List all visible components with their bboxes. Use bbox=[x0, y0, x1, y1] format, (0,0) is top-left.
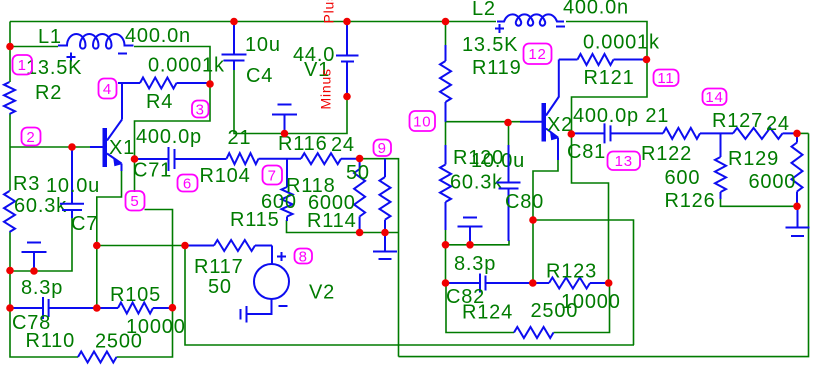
svg-text:2500: 2500 bbox=[531, 300, 579, 322]
inductor L2 coil 400.0n bbox=[497, 14, 564, 25]
junction dot C82-R123 junction bbox=[529, 279, 537, 287]
V2 plus polarity mark bbox=[277, 252, 286, 261]
inductor L2 bbox=[0, 0, 1, 1]
ground below R114 bbox=[373, 233, 397, 260]
label R119 value 13.5K bbox=[462, 34, 518, 56]
resistor R121 0.0001k bbox=[559, 54, 646, 65]
svg-text:R123: R123 bbox=[546, 261, 597, 283]
label X1 name bbox=[109, 137, 135, 159]
junction dot R4 right node3 column bbox=[206, 80, 214, 88]
svg-text:C81: C81 bbox=[567, 141, 606, 163]
wire R4 left lead to X1 collector bbox=[121, 83, 123, 120]
label R127 value 24 bbox=[766, 113, 790, 135]
svg-text:R126: R126 bbox=[665, 190, 716, 212]
wire C78-R105 junction to R117 junction bbox=[97, 245, 185, 247]
label C81 value 400.0p 21 bbox=[573, 105, 669, 127]
inductor L1 coil 400.0n bbox=[58, 34, 134, 49]
svg-text:Minus: Minus bbox=[318, 68, 334, 109]
junction dot output tap on C80 column bbox=[529, 216, 537, 224]
label C71 name bbox=[133, 160, 172, 182]
label R120 value 10.0u shared bbox=[471, 150, 525, 172]
svg-text:50: 50 bbox=[208, 276, 232, 298]
inductor L1 bbox=[0, 0, 1, 1]
label R115 name bbox=[230, 209, 280, 231]
resistor R124 2500 in box bottom bbox=[514, 327, 554, 338]
svg-text:2500: 2500 bbox=[95, 331, 143, 353]
label R122 name bbox=[641, 143, 692, 165]
node 13 badge bbox=[608, 152, 641, 171]
capacitor C82 8.3p bbox=[445, 274, 533, 293]
junction dot R119 top bbox=[442, 18, 450, 26]
label R123 name bbox=[546, 261, 597, 283]
label C7 name bbox=[71, 213, 98, 235]
capacitor C4 10u bbox=[222, 22, 247, 71]
wire R120 bottom row to C80 bottom bbox=[446, 240, 510, 245]
junction dot X1 base C7 tap bbox=[68, 143, 76, 151]
label R115 value 600 bbox=[261, 191, 297, 213]
label R127 name bbox=[712, 110, 763, 132]
label R4 name bbox=[146, 91, 173, 113]
label R104 value 21 bbox=[228, 127, 252, 149]
wire left border from rail to R2 bbox=[9, 22, 11, 83]
svg-text:R105: R105 bbox=[110, 284, 161, 306]
label R129 name bbox=[728, 148, 779, 170]
svg-text:13.5K: 13.5K bbox=[462, 34, 518, 56]
resistor R114 6000 bbox=[380, 159, 391, 233]
wire top supply rail Plus right section bbox=[566, 22, 647, 60]
junction dot ground cell stem right bbox=[466, 241, 474, 249]
label C4 value 10u bbox=[245, 34, 281, 56]
resistor R119 13.5K bbox=[440, 45, 451, 122]
svg-text:R3: R3 bbox=[13, 173, 40, 195]
label R114 value 6000 bbox=[308, 192, 356, 214]
junction dot R120 bottom row bbox=[442, 241, 450, 249]
resistor R105 10000 bbox=[97, 303, 173, 314]
capacitor C7 10.0u bbox=[60, 147, 84, 218]
svg-text:60.3k: 60.3k bbox=[14, 195, 67, 217]
wire left border R2 to base-wire and R3 bbox=[9, 114, 11, 191]
svg-text:L2: L2 bbox=[472, 0, 496, 20]
svg-text:6: 6 bbox=[183, 175, 192, 192]
junction dot C4 top bbox=[230, 18, 238, 26]
capacitor C71 400.0p bbox=[135, 147, 227, 171]
label C82 value 8.3p bbox=[454, 253, 496, 275]
svg-text:4: 4 bbox=[103, 81, 112, 98]
svg-text:R124: R124 bbox=[462, 302, 513, 324]
label R119 name bbox=[472, 57, 522, 79]
label R126 name bbox=[665, 190, 716, 212]
svg-text:C4: C4 bbox=[246, 65, 273, 87]
node 7 badge bbox=[263, 166, 283, 185]
label R114 name bbox=[307, 210, 357, 232]
resistor R129 6000 bbox=[792, 133, 803, 206]
label R120 value 60.3k bbox=[450, 172, 503, 194]
svg-text:5: 5 bbox=[130, 193, 139, 210]
label R124 name bbox=[462, 302, 513, 324]
svg-text:9: 9 bbox=[378, 140, 387, 157]
ground below C4 row bbox=[272, 105, 297, 134]
ground below R129 column bbox=[786, 206, 810, 236]
wire bottom border right section bbox=[399, 133, 809, 356]
label L2 name bbox=[472, 0, 496, 20]
junction dot node1 rail-L1 bbox=[6, 43, 14, 51]
svg-text:10.0u: 10.0u bbox=[46, 175, 100, 197]
label C7 value 10.0u bbox=[46, 175, 100, 197]
label R110 name bbox=[26, 330, 76, 352]
svg-text:10: 10 bbox=[413, 113, 431, 130]
label R118 name bbox=[286, 175, 336, 197]
label R3 name bbox=[13, 173, 40, 195]
label R110 value 2500 bbox=[95, 331, 143, 353]
svg-text:8.3p: 8.3p bbox=[21, 277, 63, 299]
node 9 badge bbox=[374, 140, 392, 158]
svg-text:R119: R119 bbox=[472, 57, 522, 79]
wire y159 run right end corner down bbox=[355, 159, 399, 357]
svg-text:0.0001k: 0.0001k bbox=[148, 55, 225, 77]
junction dot C78-R105 junction bbox=[93, 304, 101, 312]
label C80 name bbox=[505, 191, 544, 213]
label R117 name bbox=[194, 256, 244, 278]
svg-text:400.0n: 400.0n bbox=[563, 0, 629, 19]
junction dot C82 left bbox=[442, 279, 450, 287]
wire C7 bottom to left border bbox=[10, 216, 72, 271]
svg-text:14: 14 bbox=[705, 89, 723, 106]
label R105 name bbox=[110, 284, 161, 306]
svg-text:C7: C7 bbox=[71, 213, 98, 235]
svg-text:60.3k: 60.3k bbox=[450, 172, 503, 194]
resistor R122 21 bbox=[663, 128, 733, 139]
svg-text:3: 3 bbox=[196, 101, 205, 118]
node 11 badge bbox=[654, 70, 679, 88]
wire node1 to L1 bbox=[10, 46, 58, 48]
junction dot R105 right bbox=[169, 304, 177, 312]
wire left border below R3 to bottom corner bbox=[10, 232, 78, 357]
voltage source V2 bbox=[247, 246, 290, 315]
resistor R110 2500 in bottom border bbox=[78, 352, 117, 363]
label R105 value 10000 bbox=[126, 316, 186, 338]
label C71 value 400.0p bbox=[136, 126, 202, 148]
svg-text:8.3p: 8.3p bbox=[454, 253, 496, 275]
wire C82-R123 row box left side down bbox=[446, 283, 514, 333]
L2 plus polarity mark bbox=[495, 24, 504, 33]
junction dot R117 wire right bbox=[181, 242, 189, 250]
wire X2 emitter elbow to C80 column bbox=[533, 160, 558, 283]
label C81 name bbox=[567, 141, 606, 163]
svg-text:R129: R129 bbox=[728, 148, 779, 170]
wire top supply rail Plus left section bbox=[10, 21, 496, 23]
node 6 badge bbox=[178, 175, 198, 193]
junction dot R121 right node11 bbox=[643, 56, 651, 64]
resistor R3 60.3k in left border bbox=[4, 191, 15, 232]
junction dot X2 base C80 tap bbox=[504, 119, 512, 127]
junction dot C7 wire left border bbox=[6, 267, 14, 275]
wire node5 right to R105 right column bbox=[145, 210, 173, 308]
svg-text:C78: C78 bbox=[12, 312, 51, 334]
junction dot X1 emitter node bbox=[131, 155, 139, 163]
label R126 value 600 bbox=[665, 167, 701, 189]
svg-text:C71: C71 bbox=[133, 160, 172, 182]
wire X2 base run bbox=[446, 122, 520, 146]
svg-text:7: 7 bbox=[268, 167, 277, 184]
label V1 name bbox=[304, 59, 330, 81]
svg-text:6000: 6000 bbox=[749, 171, 797, 193]
junction dot R114 bottom ground bbox=[381, 229, 389, 237]
wire X1 base from node2 border bbox=[10, 146, 90, 148]
label X2 name bbox=[547, 114, 573, 136]
svg-text:24: 24 bbox=[331, 134, 355, 156]
svg-text:Plus: Plus bbox=[321, 0, 337, 24]
wire node13 column C-box bbox=[572, 60, 648, 284]
junction dot R129 bottom ground bbox=[793, 203, 801, 211]
label R4 value 0.0001k bbox=[148, 55, 225, 77]
svg-text:R4: R4 bbox=[146, 91, 173, 113]
svg-text:C80: C80 bbox=[505, 191, 544, 213]
resistor R123 10000 bbox=[533, 278, 609, 289]
svg-text:400.0p: 400.0p bbox=[136, 126, 202, 148]
wire bottom border right of R110 and up to R105 right node bbox=[117, 308, 173, 357]
svg-text:21: 21 bbox=[228, 127, 252, 149]
label R121 name bbox=[584, 67, 635, 89]
wire node5 from emitter junction down bbox=[134, 159, 136, 192]
label V2 name bbox=[309, 282, 335, 304]
svg-text:R114: R114 bbox=[307, 210, 357, 232]
junction dot R127 right node bbox=[793, 130, 801, 138]
wire R119-R120 column green segments bbox=[445, 22, 447, 284]
capacitor C78 8.3p bbox=[10, 297, 97, 319]
node 5 badge bbox=[126, 191, 145, 211]
label R104 name bbox=[200, 165, 251, 187]
label R129 value 6000 bbox=[749, 171, 797, 193]
svg-text:R2: R2 bbox=[35, 82, 62, 104]
node 10 badge bbox=[410, 111, 436, 131]
label C82 name bbox=[446, 286, 485, 308]
junction dot V1 top bbox=[343, 18, 351, 26]
junction dot R123 right bbox=[605, 279, 613, 287]
svg-text:50: 50 bbox=[346, 162, 370, 184]
svg-text:X1: X1 bbox=[109, 137, 135, 159]
wire R126 bottom row to ground node bbox=[721, 199, 798, 206]
node name Minus (rotated red) bbox=[318, 68, 334, 109]
L1 minus polarity mark bbox=[118, 53, 127, 55]
resistor R104 21 bbox=[227, 153, 302, 164]
node 14 badge bbox=[703, 89, 727, 107]
ground cell left of C80 bottom wire bbox=[458, 218, 483, 245]
junction dot R115 top node9 wire bbox=[356, 155, 364, 163]
resistor R127 24 bbox=[733, 128, 797, 139]
label R121 value 0.0001k bbox=[583, 32, 660, 54]
capacitor C80 10.0u bbox=[497, 145, 521, 241]
wire R124 to right box side up bbox=[554, 283, 610, 333]
label value 50 near node 9 bbox=[346, 162, 370, 184]
svg-text:13: 13 bbox=[615, 153, 633, 170]
label L1 name bbox=[38, 26, 62, 48]
svg-text:R117: R117 bbox=[194, 256, 244, 278]
svg-text:R121: R121 bbox=[584, 67, 635, 89]
label R2 value 13.5K bbox=[26, 57, 82, 79]
label V1 value 44.0 bbox=[293, 44, 335, 66]
wire X1 emitter down and over to C78 node column bbox=[97, 170, 122, 308]
resistor R116 24 bbox=[301, 153, 358, 164]
resistor R115 600 bbox=[354, 159, 365, 233]
ground at V2 minus (pointing left) bbox=[241, 306, 247, 323]
svg-text:R104: R104 bbox=[200, 165, 251, 187]
node 3 badge bbox=[192, 101, 209, 119]
node 1 badge bbox=[13, 55, 33, 75]
svg-text:0.0001k: 0.0001k bbox=[583, 32, 660, 54]
svg-text:400.0n: 400.0n bbox=[125, 25, 191, 47]
svg-text:R115: R115 bbox=[230, 209, 280, 231]
transistor X2 NPN bbox=[520, 97, 559, 161]
wire R117 junction down to long bottom run bbox=[185, 246, 634, 346]
svg-text:L1: L1 bbox=[38, 26, 62, 48]
svg-text:12: 12 bbox=[528, 46, 546, 63]
wire C4 bottom to V1 bottom bbox=[234, 70, 347, 134]
junction dot ground cell stem left bbox=[30, 267, 38, 275]
V2 minus polarity mark bbox=[279, 305, 288, 307]
svg-text:400.0p 21: 400.0p 21 bbox=[573, 105, 669, 127]
label R3 value 60.3k bbox=[14, 195, 67, 217]
node name Plus (rotated red) bbox=[321, 0, 337, 24]
label C78 name bbox=[12, 312, 51, 334]
label C4 name bbox=[246, 65, 273, 87]
wire R118 bottom to ground rail bbox=[287, 220, 399, 233]
battery V1 44.0 bbox=[336, 22, 359, 97]
label R116 name bbox=[278, 133, 328, 155]
node 8 badge bbox=[295, 248, 313, 265]
node 2 badge bbox=[22, 128, 41, 146]
L2 minus polarity mark bbox=[556, 26, 565, 28]
label R116 value 24 bbox=[331, 134, 355, 156]
svg-text:10.0u: 10.0u bbox=[471, 150, 525, 172]
wire R127 right node to right border bbox=[797, 132, 809, 134]
junction dot R115 bottom bbox=[356, 229, 364, 237]
label R123 value 10000 bbox=[561, 291, 621, 313]
svg-text:13.5K: 13.5K bbox=[26, 57, 82, 79]
svg-text:11: 11 bbox=[657, 70, 674, 87]
junction dot X2 emitter node bbox=[568, 130, 576, 138]
capacitor C81 400.0p bbox=[571, 123, 663, 143]
L1 plus polarity mark bbox=[67, 53, 76, 62]
svg-text:R127: R127 bbox=[712, 110, 763, 132]
resistor R126 600 bbox=[715, 133, 726, 199]
svg-text:2: 2 bbox=[26, 129, 35, 146]
svg-text:V2: V2 bbox=[309, 282, 335, 304]
ground cell left of C7 bottom wire bbox=[22, 243, 47, 272]
wire L1 right to corner and down node3 loop to X1 emitter node bbox=[134, 47, 210, 160]
node 4 badge bbox=[99, 79, 117, 99]
junction dot emitter column at R117 wire bbox=[93, 242, 101, 250]
label L2 value 400.0n bbox=[563, 0, 629, 19]
junction dot V1 bottom bbox=[343, 93, 351, 101]
label R124 value 2500 bbox=[531, 300, 579, 322]
label R2 name bbox=[35, 82, 62, 104]
resistor R120 60.3k bbox=[440, 145, 451, 230]
resistor R2 13.5K in left border bbox=[4, 82, 15, 114]
svg-text:10u: 10u bbox=[245, 34, 281, 56]
svg-text:600: 600 bbox=[665, 167, 701, 189]
resistor R117 50 bbox=[185, 240, 272, 251]
junction dot ground stem below C4 bbox=[281, 130, 289, 138]
svg-text:1: 1 bbox=[18, 57, 27, 74]
label C78 value 8.3p bbox=[21, 277, 63, 299]
junction dot C78 left border bbox=[6, 304, 14, 312]
svg-text:8: 8 bbox=[299, 248, 308, 265]
svg-text:24: 24 bbox=[766, 113, 790, 135]
resistor R118 bbox=[282, 159, 293, 221]
wire R121 left lead to X2 collector bbox=[558, 60, 560, 98]
transistor X1 NPN bbox=[90, 120, 122, 172]
svg-text:R122: R122 bbox=[641, 143, 692, 165]
label R117 value 50 bbox=[208, 276, 232, 298]
label R120 name bbox=[453, 147, 504, 169]
wire output tap row to right feedback column bbox=[533, 220, 634, 345]
node 12 badge bbox=[524, 44, 552, 65]
label L1 value 400.0n bbox=[125, 25, 191, 47]
resistor R4 0.0001k bbox=[118, 78, 209, 89]
